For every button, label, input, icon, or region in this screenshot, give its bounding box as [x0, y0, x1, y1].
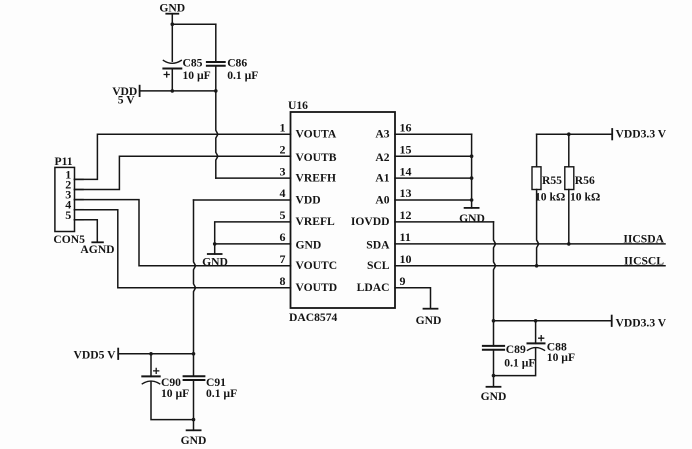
svg-text:A3: A3: [375, 128, 389, 141]
svg-text:VOUTD: VOUTD: [296, 281, 338, 294]
node C89 bottom junction: [492, 374, 496, 378]
node SCL/R55 junction: [535, 264, 539, 268]
svg-text:GND: GND: [296, 239, 322, 252]
power VDD3.3 V (pull-ups): [612, 128, 667, 141]
wire VREFH (pin 3): [216, 177, 291, 179]
svg-text:10 µF: 10 µF: [161, 387, 189, 400]
wire 3.3V rail (IOVDD): [494, 320, 612, 322]
node VDD/C86 junction: [214, 89, 218, 93]
node GND/C85/C86 junction: [171, 22, 175, 26]
node A3/A2 junction: [470, 154, 474, 158]
resistor R56: [565, 167, 600, 204]
wire SCL (pin 10) to IICSCL: [395, 265, 665, 267]
svg-text:10 µF: 10 µF: [183, 69, 211, 82]
wire A0 (pin 13): [395, 199, 472, 201]
svg-text:5: 5: [280, 208, 286, 222]
svg-text:4: 4: [280, 186, 286, 200]
svg-text:P11: P11: [55, 155, 73, 168]
wire C90 bottom lead and rail to C91: [151, 382, 194, 420]
svg-text:C89: C89: [506, 343, 526, 356]
power VDD5 V: [74, 348, 119, 361]
wire P11 pin4 to VOUTD: [74, 210, 290, 288]
svg-text:R55: R55: [542, 174, 562, 187]
svg-text:VDD3.3 V: VDD3.3 V: [616, 316, 667, 329]
svg-text:A2: A2: [375, 151, 389, 164]
wire GND (pin 6): [215, 244, 291, 254]
wire P11 pin5 to AGND: [74, 220, 97, 243]
svg-text:1: 1: [280, 120, 286, 134]
ground GND (bottom, C90/C91): [181, 430, 207, 447]
wire IOVDD (pin 12) to 3.3V rail: [395, 222, 496, 346]
wire P11 pin2 to VOUTB: [74, 156, 290, 189]
wire R55 top lead: [536, 134, 538, 167]
svg-text:IICSCL: IICSCL: [624, 254, 664, 267]
wire C88 bottom lead and rail to C89: [494, 348, 536, 376]
power VDD 5 V: [112, 85, 139, 107]
wire 5V rail to C90/C91: [118, 353, 193, 355]
wire A2 (pin 15): [395, 155, 472, 157]
svg-text:2: 2: [280, 142, 286, 156]
connector P11 (CON5): [53, 155, 85, 246]
wire C85 bottom lead: [171, 69, 173, 91]
wire A1 (pin 14): [395, 177, 472, 179]
IC U16 DAC8574: [280, 99, 412, 324]
svg-text:U16: U16: [288, 99, 308, 112]
svg-text:A0: A0: [375, 193, 389, 206]
wire IC pin4 VDD down to 5V rail and bottom ground: [194, 200, 291, 430]
svg-text:10 kΩ: 10 kΩ: [570, 190, 600, 203]
capacitor C90: [142, 354, 189, 400]
svg-text:VOUTA: VOUTA: [296, 128, 337, 141]
svg-text:11: 11: [400, 230, 411, 244]
node VDD/C85 junction: [171, 89, 175, 93]
node SDA/R56 junction: [567, 242, 571, 246]
svg-text:7: 7: [280, 252, 286, 266]
wire SDA (pin 11) to IICSDA: [395, 243, 665, 245]
svg-text:9: 9: [400, 274, 406, 288]
svg-text:GND: GND: [181, 434, 207, 447]
svg-text:LDAC: LDAC: [357, 281, 390, 294]
svg-text:16: 16: [400, 120, 412, 134]
ground GND (C88/C89): [481, 387, 507, 403]
svg-text:IICSDA: IICSDA: [623, 233, 664, 246]
svg-text:VOUTB: VOUTB: [296, 151, 337, 164]
svg-text:0.1 µF: 0.1 µF: [206, 387, 237, 400]
node R56 top junction: [567, 132, 571, 136]
wire A3 (pin 16): [395, 133, 472, 135]
svg-text:14: 14: [400, 164, 412, 178]
svg-text:GND: GND: [481, 390, 507, 403]
svg-text:SDA: SDA: [366, 239, 390, 252]
svg-text:5 V: 5 V: [118, 93, 135, 106]
svg-text:GND: GND: [202, 256, 228, 269]
ground GND (LDAC): [416, 309, 442, 327]
svg-text:0.1 µF: 0.1 µF: [504, 357, 535, 370]
wire R56 top lead: [568, 134, 570, 167]
node A2/A1 junction: [470, 176, 474, 180]
svg-text:C85: C85: [183, 57, 203, 70]
node C88 top junction: [534, 319, 538, 323]
svg-text:10 kΩ: 10 kΩ: [535, 190, 565, 203]
ground GND (top, for C85/C86): [159, 2, 185, 15]
svg-text:DAC8574: DAC8574: [289, 311, 338, 324]
wire R55 bottom lead to SCL: [537, 190, 539, 266]
svg-text:6: 6: [280, 230, 286, 244]
svg-text:VDD5 V: VDD5 V: [74, 348, 117, 361]
svg-text:10: 10: [400, 252, 412, 266]
svg-text:3: 3: [280, 164, 286, 178]
capacitor C88: [528, 321, 576, 364]
svg-text:C86: C86: [227, 57, 247, 70]
resistor R55: [532, 167, 565, 204]
svg-text:10 µF: 10 µF: [547, 351, 575, 364]
svg-text:13: 13: [400, 186, 412, 200]
ground AGND: [80, 242, 114, 256]
svg-text:VREFH: VREFH: [296, 171, 337, 184]
svg-text:GND: GND: [459, 212, 485, 225]
node VDD vertical 5V rail junction: [192, 352, 196, 356]
wire LDAC (pin 9) to ground: [395, 288, 431, 309]
wire R56 bottom lead to SDA: [568, 190, 570, 244]
wire C89 bottom lead: [493, 350, 495, 387]
wire VREFL (pin 5): [215, 222, 291, 244]
ground GND (pins 5,6): [202, 254, 228, 269]
svg-text:VREFL: VREFL: [296, 215, 336, 228]
svg-text:IOVDD: IOVDD: [351, 215, 390, 228]
svg-text:A1: A1: [375, 171, 389, 184]
svg-text:GND: GND: [416, 314, 442, 327]
wire P11 pin1 to VOUTA: [74, 134, 290, 179]
ground GND (address pins): [459, 208, 485, 225]
svg-text:R56: R56: [575, 174, 595, 187]
wire P11 pin3 to VOUTC: [74, 200, 290, 266]
wire address bus vertical to ground: [471, 134, 473, 208]
svg-text:GND: GND: [159, 2, 185, 15]
svg-text:8: 8: [280, 274, 286, 288]
node VREFL/GND junction: [213, 242, 217, 246]
svg-text:15: 15: [400, 142, 412, 156]
svg-text:VOUTC: VOUTC: [296, 259, 338, 272]
wire 3.3V rail to R55/R56: [537, 133, 613, 135]
svg-text:VDD: VDD: [296, 193, 321, 206]
wire GND bar to C85 top: [171, 14, 173, 62]
power VDD3.3 V (IOVDD): [612, 316, 667, 330]
node C90 top junction: [149, 352, 153, 356]
svg-text:0.1 µF: 0.1 µF: [227, 69, 258, 82]
svg-text:12: 12: [400, 208, 412, 222]
capacitor C86: [207, 57, 258, 82]
svg-text:AGND: AGND: [80, 243, 114, 256]
node IOVDD rail junction: [492, 319, 496, 323]
wire C86 bottom lead down to VREFH row: [216, 66, 218, 178]
wire top jog to C86: [172, 23, 216, 25]
capacitor C85: [163, 57, 210, 82]
wire C86 top lead: [215, 24, 217, 62]
svg-text:5: 5: [65, 208, 71, 222]
capacitor C89: [483, 343, 536, 369]
node C91 bottom junction: [192, 418, 196, 422]
wire VDD rail to C85/C86: [140, 90, 216, 92]
svg-text:SCL: SCL: [367, 259, 390, 272]
node A1/A0 junction: [470, 198, 474, 202]
svg-text:VDD3.3 V: VDD3.3 V: [616, 128, 667, 141]
capacitor C91: [184, 376, 238, 400]
